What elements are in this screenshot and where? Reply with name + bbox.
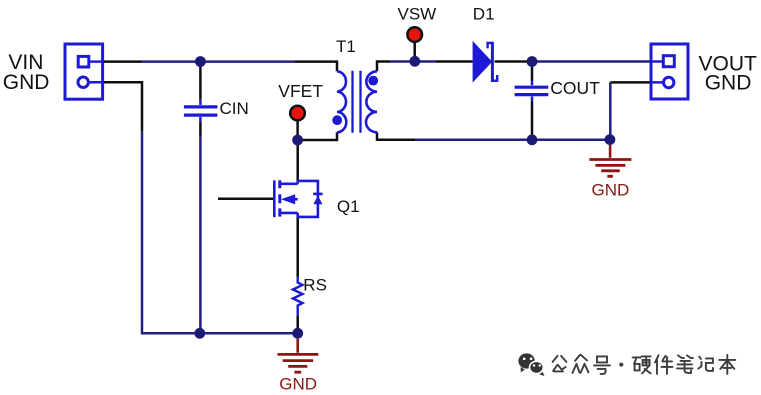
terminal J1 square pin [78,56,89,67]
char ben [719,355,735,374]
transistor Q1 channel segments [278,180,281,216]
wire VIN GND navy down left side and bottom rail [142,132,298,334]
svg-text:D1: D1 [473,4,495,23]
char gong [553,356,567,372]
middle dot [619,363,623,367]
wire VIN+ black segment from terminal [104,60,142,63]
junction node at CIN top [195,56,206,67]
terminal J1 circle pin [78,77,88,87]
svg-text:VFET: VFET [278,81,323,101]
transformer T1 primary phase dot [332,115,342,125]
watermark text hand-drawn CJK [553,355,736,374]
transformer T1 secondary phase dot [368,76,378,86]
probe VSW red dot [407,27,422,42]
terminal J2 square pin [663,56,674,67]
wire T1 secondary top to rail [377,62,390,72]
char ji [698,357,713,371]
wire VIN+ navy segment to CIN junction and onward [142,60,296,63]
wire navy bottom right rail [416,139,611,142]
terminal J1 VIN/GND connector body [65,44,103,99]
wire black diode cathode to junction [495,60,532,63]
char hao [594,356,610,374]
wire Q1 drain [296,140,299,181]
transformer T1 core lines [353,71,361,133]
capacitor COUT plates [515,87,549,94]
diode D1 triangle [473,41,493,83]
wire VSW probe stub [413,43,416,62]
wire VFET junction to T1 primary bottom [298,132,337,140]
transistor Q1 body diode [313,195,322,204]
diode D1 schottky cathode bar [491,42,494,82]
terminal J2 pin stubs [650,62,663,83]
svg-text:RS: RS [303,275,327,294]
char zhong [573,355,589,373]
svg-text:GND: GND [279,374,317,393]
wire VFET probe stub [296,121,299,141]
svg-text:GND: GND [705,72,752,95]
wire RS bottom black to rail [296,315,299,333]
transformer T1 primary winding [337,71,346,132]
char jian [655,355,673,374]
watermark wechat icon [518,353,544,376]
transistor Q1 source arrow [281,194,295,204]
char bi [677,355,693,373]
wire COUT bottom lead black [531,102,534,140]
junction node VFET [292,135,303,146]
wire T1 secondary bottom black [377,132,416,140]
svg-text:GND: GND [3,71,50,94]
wire VIN GND black from terminal, corner down [104,82,142,132]
terminal J1 pin stubs [90,62,104,83]
wire Q1 gate lead [218,198,273,201]
svg-text:VSW: VSW [398,4,437,23]
char ying (hard) [633,356,651,373]
capacitor COUT leads blue [531,81,534,102]
svg-text:COUT: COUT [550,78,600,98]
wire VOUT GND navy down to junction [609,82,612,139]
probe VFET red dot [290,106,305,121]
transformer T1 secondary winding [366,71,377,132]
terminal J2 VOUT/GND connector body [651,44,688,99]
capacitor CIN plates [184,107,218,115]
junction node COUT bottom [527,134,538,145]
wire Q1 source to RS [296,217,299,277]
ground symbol input side [296,339,299,353]
transistor Q1 drain link and body loop [281,181,318,217]
capacitor CIN leads blue [199,100,202,122]
junction node output GND [605,134,616,145]
junction node RS bottom [292,328,303,339]
wire CIN top lead black [199,62,202,100]
junction node VSW [409,56,420,67]
svg-text:T1: T1 [336,37,356,56]
wire navy junction to VOUT terminal [532,60,650,63]
wire black into diode anode [436,60,473,63]
wire COUT top lead black [531,62,534,81]
wire top rail black into T1 primary top [295,62,337,72]
resistor RS zigzag [293,277,303,316]
wire CIN bottom lead black then navy to bottom rail [199,122,202,136]
wire VOUT GND black from terminal [610,81,650,84]
diode D1 schottky hooks [488,43,498,81]
svg-text:GND: GND [592,180,630,199]
wire navy through VSW junction [390,60,436,63]
terminal J2 circle pin [664,77,674,87]
junction node CIN bottom [194,328,205,339]
transistor Q1 MOSFET gate bar [273,180,276,217]
ground symbol output side [609,145,612,158]
svg-text:Q1: Q1 [337,197,360,216]
junction node diode output [527,56,538,67]
svg-text:CIN: CIN [220,99,249,118]
